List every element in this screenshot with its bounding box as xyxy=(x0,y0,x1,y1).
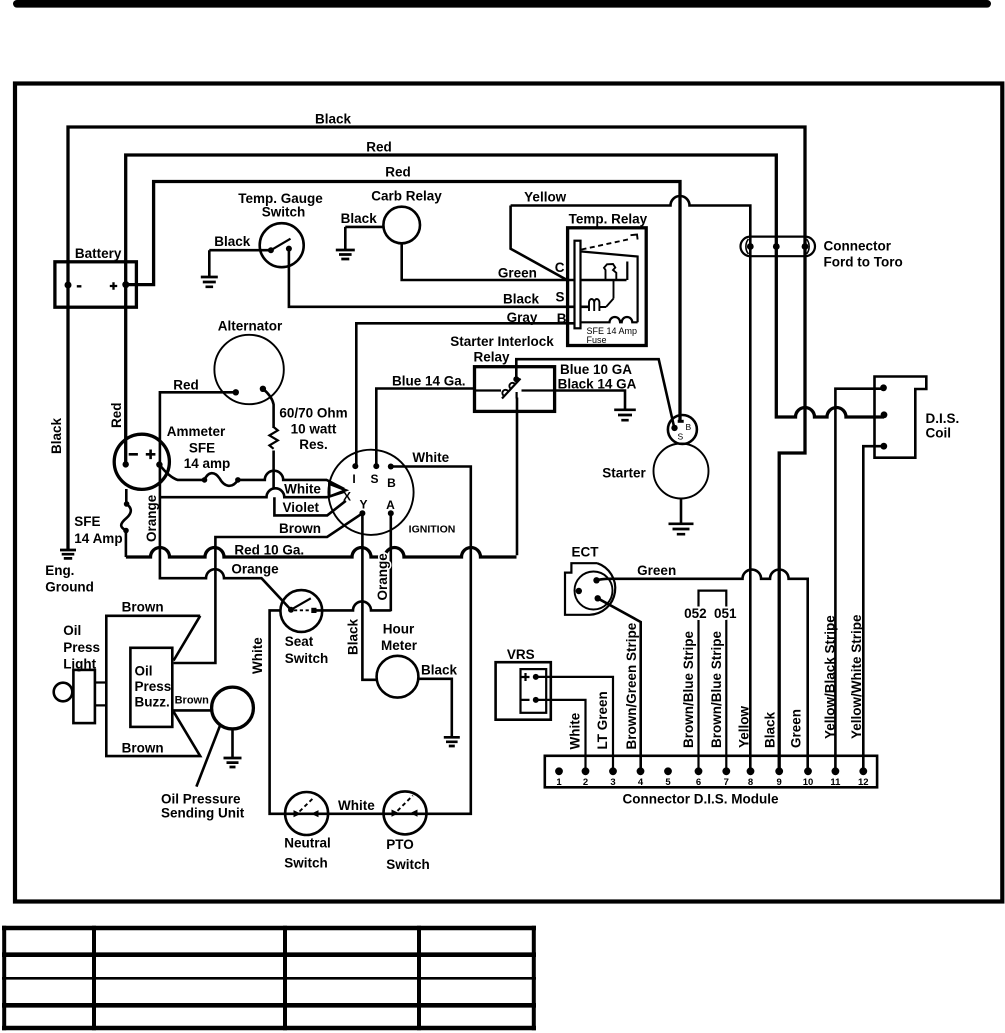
svg-text:Press: Press xyxy=(63,640,100,655)
svg-text:Green: Green xyxy=(498,266,537,281)
svg-text:B: B xyxy=(557,311,567,326)
svg-text:Temp. Gauge: Temp. Gauge xyxy=(238,191,323,206)
svg-text:Y: Y xyxy=(359,498,367,512)
svg-text:9: 9 xyxy=(777,777,782,788)
svg-text:Yellow/White Stripe: Yellow/White Stripe xyxy=(849,614,864,739)
svg-text:C: C xyxy=(555,260,565,275)
svg-text:ECT: ECT xyxy=(572,545,600,560)
svg-text:B: B xyxy=(686,422,692,432)
svg-text:Connector D.I.S. Module: Connector D.I.S. Module xyxy=(622,792,778,807)
svg-text:Brown: Brown xyxy=(279,521,321,536)
svg-text:Red: Red xyxy=(173,378,199,393)
svg-text:Brown: Brown xyxy=(122,600,164,615)
svg-text:Fuse: Fuse xyxy=(587,335,607,345)
svg-text:LT Green: LT Green xyxy=(595,691,610,749)
svg-text:D.I.S.: D.I.S. xyxy=(926,411,960,426)
svg-text:B: B xyxy=(387,476,396,490)
svg-text:Connector: Connector xyxy=(824,239,892,254)
svg-text:Black: Black xyxy=(503,292,540,307)
svg-text:Red: Red xyxy=(366,140,392,155)
svg-text:Starter: Starter xyxy=(602,465,646,480)
svg-text:Black 14 GA: Black 14 GA xyxy=(558,376,637,391)
svg-text:Black: Black xyxy=(763,711,778,748)
svg-text:Temp. Relay: Temp. Relay xyxy=(569,212,648,227)
svg-text:Switch: Switch xyxy=(262,205,306,220)
svg-text:White: White xyxy=(568,712,583,749)
svg-text:Brown/Blue Stripe: Brown/Blue Stripe xyxy=(681,630,696,748)
svg-text:11: 11 xyxy=(830,777,841,788)
svg-text:Hour: Hour xyxy=(383,622,415,637)
svg-text:Switch: Switch xyxy=(386,857,430,872)
svg-text:12: 12 xyxy=(858,777,869,788)
svg-text:Black: Black xyxy=(341,211,378,226)
svg-text:Violet: Violet xyxy=(282,500,319,515)
svg-text:Black: Black xyxy=(315,112,352,127)
svg-text:A: A xyxy=(386,498,395,512)
svg-text:White: White xyxy=(284,482,321,497)
svg-text:Orange: Orange xyxy=(144,494,159,542)
svg-text:2: 2 xyxy=(583,777,588,788)
svg-text:Light: Light xyxy=(63,657,96,672)
svg-text:Brown: Brown xyxy=(175,695,210,707)
svg-text:Press: Press xyxy=(135,679,172,694)
svg-text:Red 10 Ga.: Red 10 Ga. xyxy=(234,543,304,558)
svg-text:Sending Unit: Sending Unit xyxy=(161,806,245,821)
svg-text:7: 7 xyxy=(724,777,729,788)
svg-text:Neutral: Neutral xyxy=(284,836,331,851)
svg-text:Coil: Coil xyxy=(926,426,952,441)
svg-text:Red: Red xyxy=(109,402,124,428)
svg-text:Green: Green xyxy=(637,563,676,578)
svg-text:052: 052 xyxy=(684,606,707,621)
svg-text:VRS: VRS xyxy=(507,647,535,662)
svg-text:Orange: Orange xyxy=(231,562,279,577)
svg-text:Meter: Meter xyxy=(381,638,418,653)
svg-text:Ammeter: Ammeter xyxy=(167,424,226,439)
svg-text:Seat: Seat xyxy=(285,634,314,649)
svg-text:Ground: Ground xyxy=(45,579,94,594)
svg-text:Black: Black xyxy=(421,663,458,678)
svg-text:Battery: Battery xyxy=(75,246,122,261)
svg-text:I: I xyxy=(352,472,355,486)
svg-text:14 amp: 14 amp xyxy=(184,456,231,471)
svg-text:Switch: Switch xyxy=(284,856,328,871)
svg-text:051: 051 xyxy=(714,606,737,621)
svg-text:Oil: Oil xyxy=(63,623,81,638)
svg-text:Buzz.: Buzz. xyxy=(135,695,170,710)
svg-text:Black: Black xyxy=(346,618,361,655)
svg-text:Yellow: Yellow xyxy=(524,190,567,205)
svg-text:Orange: Orange xyxy=(375,553,390,601)
svg-text:Blue 14 Ga.: Blue 14 Ga. xyxy=(392,374,466,389)
svg-text:IGNITION: IGNITION xyxy=(409,524,456,536)
svg-text:PTO: PTO xyxy=(386,837,414,852)
svg-text:Oil: Oil xyxy=(135,664,153,679)
svg-text:Relay: Relay xyxy=(473,350,510,365)
svg-text:Red: Red xyxy=(385,165,411,180)
svg-text:1: 1 xyxy=(556,777,562,788)
svg-text:Alternator: Alternator xyxy=(218,319,283,334)
svg-text:White: White xyxy=(412,450,449,465)
svg-text:6: 6 xyxy=(696,777,701,788)
svg-text:Gray: Gray xyxy=(507,310,538,325)
svg-text:Brown/Blue Stripe: Brown/Blue Stripe xyxy=(709,630,724,748)
svg-text:60/70 Ohm: 60/70 Ohm xyxy=(279,406,347,421)
svg-text:Black: Black xyxy=(49,417,64,454)
svg-text:10 watt: 10 watt xyxy=(291,422,337,437)
svg-text:14 Amp: 14 Amp xyxy=(74,531,122,546)
svg-text:SFE: SFE xyxy=(74,514,100,529)
svg-text:Switch: Switch xyxy=(285,651,329,666)
svg-text:Oil Pressure: Oil Pressure xyxy=(161,792,241,807)
svg-text:Brown: Brown xyxy=(122,741,164,756)
svg-text:White: White xyxy=(250,637,265,674)
svg-text:Black: Black xyxy=(214,234,251,249)
svg-text:S: S xyxy=(555,289,564,304)
svg-text:5: 5 xyxy=(665,777,671,788)
svg-text:4: 4 xyxy=(638,777,644,788)
svg-text:Yellow: Yellow xyxy=(737,705,752,748)
svg-text:Starter Interlock: Starter Interlock xyxy=(450,334,554,349)
svg-text:Green: Green xyxy=(789,709,804,748)
svg-text:Eng.: Eng. xyxy=(45,563,74,578)
svg-text:Ford to Toro: Ford to Toro xyxy=(824,255,903,270)
svg-text:Res.: Res. xyxy=(299,437,328,452)
svg-text:Carb Relay: Carb Relay xyxy=(371,189,442,204)
svg-text:Yellow/Black Stripe: Yellow/Black Stripe xyxy=(823,615,838,739)
svg-text:White: White xyxy=(338,798,375,813)
svg-text:S: S xyxy=(370,472,378,486)
svg-text:S: S xyxy=(678,432,684,442)
svg-text:Blue 10 GA: Blue 10 GA xyxy=(560,362,632,377)
svg-text:Brown/Green Stripe: Brown/Green Stripe xyxy=(624,622,639,749)
svg-text:X: X xyxy=(343,490,351,504)
svg-text:3: 3 xyxy=(610,777,615,788)
svg-text:10: 10 xyxy=(803,777,814,788)
svg-text:SFE: SFE xyxy=(189,441,215,456)
svg-text:8: 8 xyxy=(748,777,753,788)
